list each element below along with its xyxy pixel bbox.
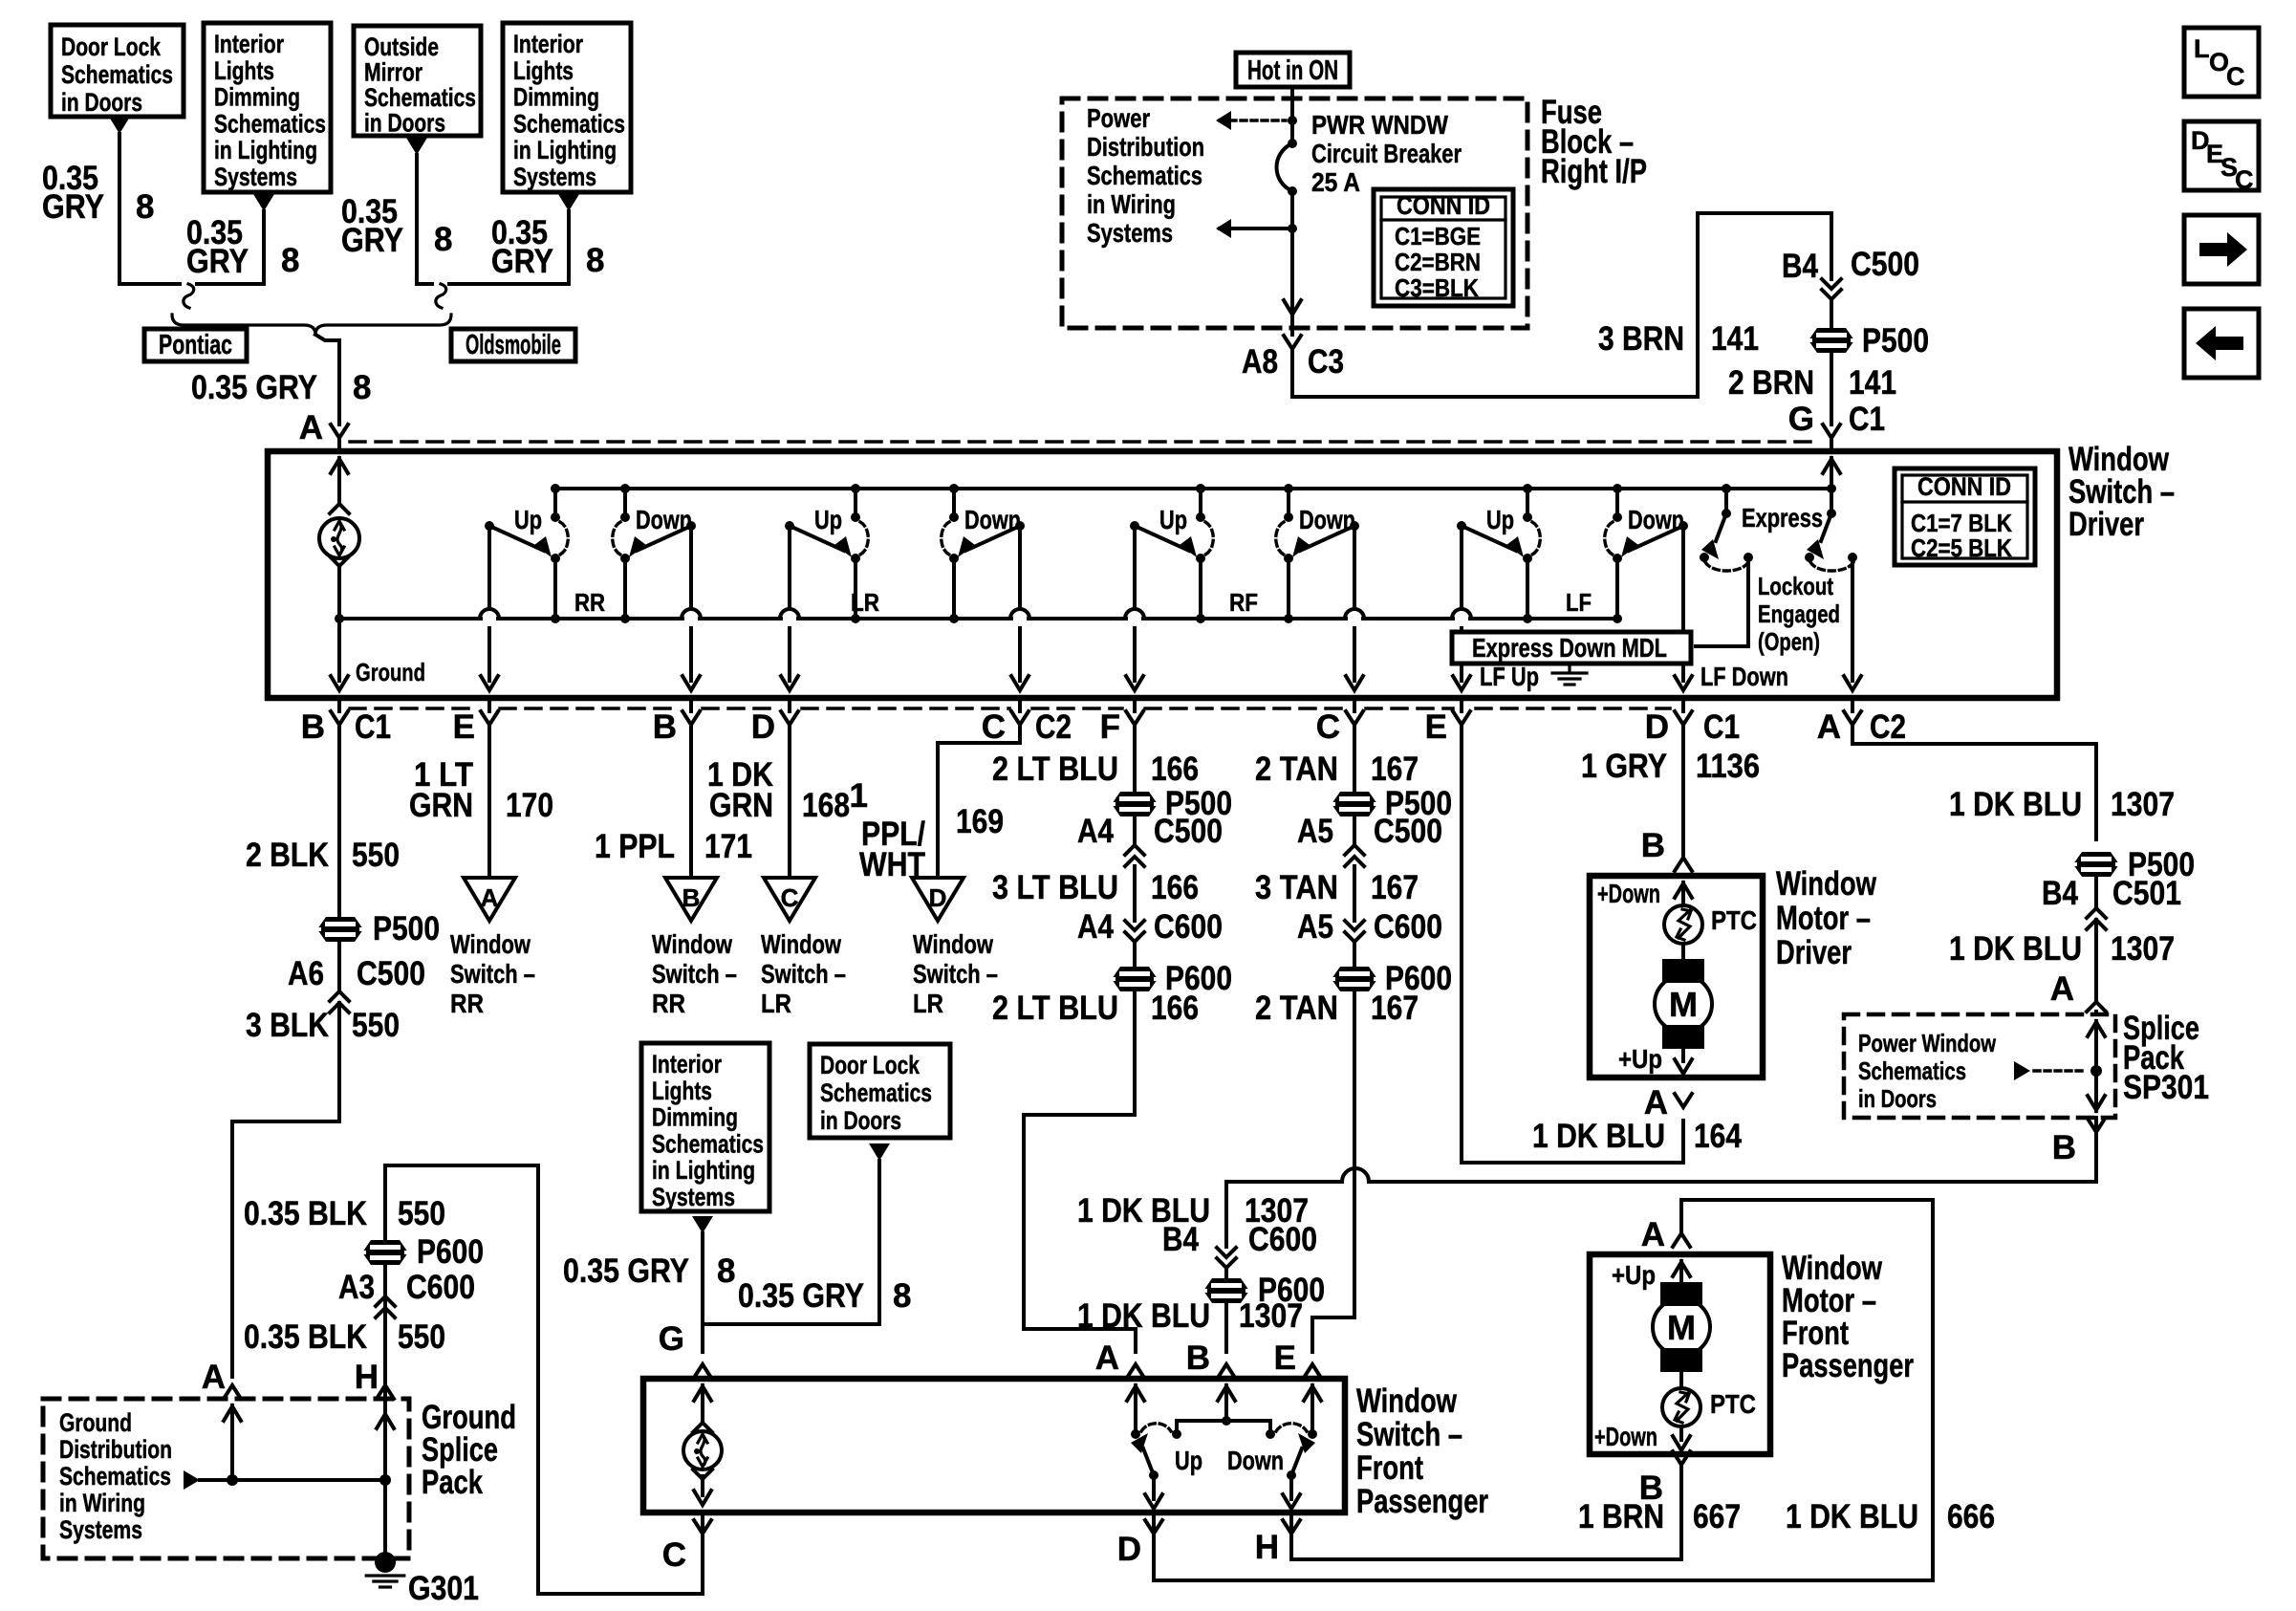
svg-text:3 LT BLU: 3 LT BLU <box>992 869 1118 906</box>
svg-text:C600: C600 <box>1248 1221 1317 1258</box>
solid arrow to power distribution (bottom) <box>1216 219 1231 238</box>
triangle A: window switch RR <box>464 878 515 921</box>
svg-text:in Doors: in Doors <box>364 109 445 138</box>
svg-text:167: 167 <box>1371 751 1419 788</box>
svg-text:PWR WNDW: PWR WNDW <box>1311 110 1448 140</box>
svg-text:1 BRN: 1 BRN <box>1578 1498 1664 1535</box>
connector A6 / C500 <box>337 942 341 990</box>
svg-text:164: 164 <box>1694 1118 1742 1155</box>
grommet P500 (right) <box>2073 852 2119 877</box>
svg-text:B: B <box>682 883 701 912</box>
svg-text:A: A <box>2050 970 2074 1008</box>
wire: driver switch D/C1 to motor B (1 GRY 1136) <box>1681 725 1685 858</box>
arrow from Interior Lights (bottom) <box>692 1216 713 1233</box>
svg-text:2 BRN: 2 BRN <box>1728 364 1814 402</box>
svg-text:Window: Window <box>1356 1382 1458 1420</box>
motor feed entry (inside) <box>1675 883 1692 898</box>
svg-text:Down: Down <box>1628 505 1684 534</box>
svg-text:C2=5 BLK: C2=5 BLK <box>1911 533 2012 562</box>
svg-text:in Wiring: in Wiring <box>1087 189 1176 219</box>
svg-text:C600: C600 <box>1374 908 1442 946</box>
svg-text:+Down: +Down <box>1597 879 1660 908</box>
svg-text:Power: Power <box>1087 103 1150 133</box>
svg-text:0.35 BLK: 0.35 BLK <box>244 1318 367 1356</box>
svg-text:Systems: Systems <box>652 1183 735 1211</box>
wire to front passenger B <box>1224 1303 1228 1352</box>
box: Window Switch - Front Passenger <box>643 1379 1345 1513</box>
svg-text:8: 8 <box>586 242 604 279</box>
reference box: Door Lock Schematics (bottom) <box>810 1044 950 1138</box>
svg-text:A3: A3 <box>338 1269 375 1306</box>
splice squiggle right pair <box>436 284 446 308</box>
PTC (passenger motor) <box>1662 1388 1700 1426</box>
wire: C column 2 TAN 167 <box>1353 725 1356 792</box>
svg-text:Schematics: Schematics <box>364 83 476 112</box>
circuit breaker PWR WNDW 25A <box>1288 139 1297 148</box>
svg-text:C1: C1 <box>355 708 391 746</box>
svg-text:Systems: Systems <box>513 163 596 191</box>
svg-text:in Doors: in Doors <box>820 1106 901 1135</box>
svg-text:C3: C3 <box>1308 343 1344 381</box>
switch Express <box>1722 484 1731 493</box>
svg-text:Dimming: Dimming <box>513 83 599 112</box>
connector A (driver motor) <box>1675 1094 1692 1107</box>
connector A3 / C600 <box>376 1296 395 1306</box>
svg-text:Lockout: Lockout <box>1758 572 1833 600</box>
svg-text:166: 166 <box>1151 869 1199 906</box>
svg-text:C501: C501 <box>2112 875 2181 912</box>
svg-text:167: 167 <box>1371 869 1419 906</box>
switch LR Down <box>949 484 959 493</box>
connector C / C2 (to window switch LR) <box>1018 698 1022 711</box>
dashed connector line C1 (top) <box>350 440 1821 444</box>
wire: 0.35 GRY 8 joins G wire <box>703 1161 879 1324</box>
svg-text:C600: C600 <box>1154 908 1223 946</box>
svg-text:C: C <box>2226 62 2245 91</box>
svg-text:Interior: Interior <box>652 1050 722 1078</box>
svg-text:Up: Up <box>514 505 542 534</box>
svg-text:M: M <box>1667 1308 1696 1347</box>
triangle B: window switch RR <box>665 878 717 921</box>
wire: D to window switch LR triangle C <box>788 725 791 878</box>
svg-text:D: D <box>929 883 947 912</box>
svg-text:2 LT BLU: 2 LT BLU <box>992 990 1118 1027</box>
arrow from Door Lock box <box>109 117 130 134</box>
motor entry +Up (inside) <box>1673 1262 1690 1276</box>
wire: ground exit <box>337 619 341 681</box>
svg-text:SP301: SP301 <box>2123 1069 2209 1106</box>
wire: LR Up pivot to connector D <box>788 526 791 609</box>
connector B (splice pack SP301) <box>2094 1118 2098 1132</box>
svg-text:Distribution: Distribution <box>1087 132 1204 162</box>
passenger switch B feed bar <box>1218 1386 1235 1401</box>
splice squiggle left pair <box>184 284 194 308</box>
svg-text:25 A: 25 A <box>1311 167 1360 197</box>
svg-text:GRY: GRY <box>341 222 403 259</box>
svg-text:Schematics: Schematics <box>820 1078 932 1107</box>
svg-text:Mirror: Mirror <box>364 58 422 87</box>
svg-text:C1: C1 <box>1849 401 1885 438</box>
grommet P600 on C column <box>1332 967 1377 991</box>
link arc A-bar <box>1141 1424 1171 1431</box>
reference box: Interior Lights Dimming Schematics (left) <box>204 23 331 192</box>
svg-text:8: 8 <box>281 242 299 279</box>
wire: LR Down pivot to connector C <box>1018 526 1022 609</box>
svg-text:169: 169 <box>956 803 1004 840</box>
svg-text:Systems: Systems <box>1087 218 1173 248</box>
svg-text:Window: Window <box>913 929 993 959</box>
svg-text:141: 141 <box>1711 320 1759 358</box>
connector D (to window switch LR) <box>788 698 791 711</box>
svg-text:B: B <box>1186 1339 1210 1377</box>
box: Window Motor - Driver <box>1590 876 1763 1078</box>
passenger switch right arm (to H) <box>1287 1470 1296 1480</box>
arrow from Door Lock (bottom) <box>869 1143 890 1161</box>
grommet P500 (top right) <box>1809 328 1854 353</box>
wire: RF Up pivot to connector F <box>1133 526 1137 609</box>
grommet P600 (B column) <box>1203 1278 1249 1303</box>
connector E (to driver motor A) <box>1460 698 1463 711</box>
svg-text:Schematics: Schematics <box>59 1462 171 1491</box>
connector B4 / C501 <box>2094 877 2098 906</box>
reference box: Door Lock Schematics in Doors <box>51 25 184 117</box>
connector A (ground splice pack) <box>224 1385 241 1399</box>
svg-text:C2: C2 <box>1035 708 1072 746</box>
svg-text:RR: RR <box>652 989 685 1018</box>
switch LF Down <box>1613 484 1622 493</box>
dashed box: Power Window Schematics in Doors (SP301) <box>1844 1014 2115 1118</box>
wire: breaker to A8 <box>1290 191 1294 316</box>
svg-text:L: L <box>2194 34 2210 63</box>
svg-text:Switch –: Switch – <box>450 959 535 989</box>
svg-text:C3=BLK: C3=BLK <box>1395 273 1479 302</box>
svg-text:+Up: +Up <box>1618 1044 1662 1074</box>
wire: lockout to connector A C2 <box>1851 557 1854 681</box>
svg-text:A6: A6 <box>288 955 324 992</box>
reference box: Interior Lights Dimming Schematics (right) <box>503 23 631 192</box>
svg-text:C: C <box>1316 708 1340 746</box>
box: Hot in ON <box>1236 53 1350 87</box>
switch Lockout (C2 feed) <box>1827 484 1836 493</box>
svg-text:in Lighting: in Lighting <box>652 1156 755 1185</box>
connector C (front passenger switch, below) <box>701 1515 704 1534</box>
svg-text:8: 8 <box>136 188 154 226</box>
svg-text:GRY: GRY <box>491 243 553 280</box>
svg-text:in Lighting: in Lighting <box>513 136 617 164</box>
arrow from Outside Mirror box <box>406 138 427 155</box>
svg-text:B4: B4 <box>2042 875 2078 912</box>
connector H (front passenger switch, below) <box>1289 1515 1293 1534</box>
PTC (driver motor) <box>1664 905 1702 944</box>
arrow from Interior Lights box (right) <box>558 194 579 211</box>
svg-text:Front: Front <box>1356 1449 1423 1487</box>
svg-text:Up: Up <box>1175 1446 1202 1475</box>
box: CONN ID (driver switch) <box>1895 468 2035 565</box>
svg-text:A4: A4 <box>1077 908 1114 946</box>
svg-text:G301: G301 <box>408 1570 479 1607</box>
svg-text:(Open): (Open) <box>1758 627 1820 656</box>
arrow link inside SP301 <box>2014 1061 2030 1080</box>
svg-text:P600: P600 <box>417 1233 484 1271</box>
connector B (driver motor) <box>1675 858 1692 871</box>
svg-text:Express Down MDL: Express Down MDL <box>1472 633 1667 663</box>
connector A / C2 (to splice pack) <box>1851 698 1854 711</box>
wire: LF Up pivot to Express Down MDL <box>1460 526 1463 609</box>
svg-text:1 DK BLU: 1 DK BLU <box>1077 1297 1210 1335</box>
wire: 0.35 GRY 8 down to connector A <box>315 335 339 340</box>
box: CONN ID (fuse block) <box>1374 189 1513 306</box>
connector A4 / C500 <box>1133 816 1137 845</box>
svg-text:Schematics: Schematics <box>1087 161 1202 190</box>
wire: 0.35 GRY from Interior Lights box (left) <box>197 211 264 284</box>
svg-text:166: 166 <box>1151 990 1199 1027</box>
svg-text:Motor –: Motor – <box>1776 900 1871 937</box>
svg-text:A: A <box>1644 1084 1668 1121</box>
svg-text:Lights: Lights <box>214 56 274 85</box>
merge brace Pontiac/Oldsmobile <box>172 315 451 335</box>
svg-text:E: E <box>1425 708 1447 746</box>
nav box right-arrow <box>2184 215 2259 284</box>
svg-text:Up: Up <box>1486 505 1514 534</box>
svg-text:C1: C1 <box>1703 708 1740 746</box>
svg-text:Window: Window <box>652 929 732 959</box>
svg-text:Window: Window <box>1776 865 1877 903</box>
svg-text:LR: LR <box>851 588 879 617</box>
connector H (ground splice pack) <box>377 1385 394 1399</box>
svg-text:3 TAN: 3 TAN <box>1255 869 1338 906</box>
svg-text:Window: Window <box>450 929 531 959</box>
connector G (front passenger switch) <box>694 1364 711 1378</box>
svg-text:Lights: Lights <box>513 56 574 85</box>
wire: A/C2 to splice pack SP301 (1 DK BLU 1307) <box>1852 723 2096 839</box>
svg-text:RR: RR <box>574 588 605 617</box>
connector B / C1 (driver ground) <box>337 698 341 711</box>
svg-text:P500: P500 <box>373 910 440 947</box>
svg-text:2 BLK: 2 BLK <box>246 837 329 874</box>
svg-text:B4: B4 <box>1782 248 1818 285</box>
svg-text:0.35 GRY: 0.35 GRY <box>191 369 317 406</box>
svg-text:Schematics: Schematics <box>652 1129 764 1158</box>
svg-text:Ground: Ground <box>356 658 425 686</box>
svg-text:Up: Up <box>814 505 842 534</box>
svg-text:Up: Up <box>1159 505 1187 534</box>
svg-text:C2: C2 <box>1870 708 1906 746</box>
svg-text:A: A <box>1817 708 1841 746</box>
svg-text:Systems: Systems <box>214 163 297 191</box>
svg-text:1 GRY: 1 GRY <box>1581 748 1667 785</box>
grommet P500 on C column <box>1332 792 1377 816</box>
box: Window Switch - Driver <box>268 451 2057 698</box>
svg-text:Switch –: Switch – <box>1356 1416 1462 1453</box>
svg-text:B: B <box>653 708 677 746</box>
wire: LF Down output <box>1681 664 1685 681</box>
svg-text:PTC: PTC <box>1711 905 1757 935</box>
svg-text:GRY: GRY <box>186 243 249 280</box>
svg-text:Lights: Lights <box>652 1077 712 1105</box>
svg-text:Switch –: Switch – <box>913 959 998 989</box>
svg-text:Distribution: Distribution <box>59 1435 172 1464</box>
svg-text:3 BRN: 3 BRN <box>1598 320 1684 358</box>
svg-text:+Down: +Down <box>1594 1422 1657 1451</box>
svg-text:E: E <box>453 708 475 746</box>
wire: RF Down pivot to connector C <box>1353 526 1356 609</box>
switch RF Up <box>1196 484 1205 493</box>
svg-text:Express: Express <box>1742 503 1823 533</box>
wire: breaker to ground bus <box>337 566 341 619</box>
svg-text:Passenger: Passenger <box>1356 1483 1488 1520</box>
G wire inside passenger switch <box>694 1386 711 1401</box>
svg-text:Door Lock: Door Lock <box>820 1051 921 1079</box>
box: Pontiac <box>144 329 247 361</box>
wire motor to +Up exit <box>1681 1049 1685 1061</box>
triangle C: window switch LR <box>764 878 815 921</box>
svg-text:LF Up: LF Up <box>1480 662 1539 691</box>
svg-text:G: G <box>659 1320 684 1358</box>
svg-text:1136: 1136 <box>1696 748 1760 785</box>
switch RR Up <box>551 484 560 493</box>
lockout link (C2 side) <box>1810 562 1853 571</box>
svg-text:D: D <box>751 708 775 746</box>
passenger switch A contact <box>1127 1386 1144 1401</box>
reference box: Interior Lights Dimming (bottom) <box>641 1043 769 1211</box>
svg-text:PTC: PTC <box>1710 1389 1756 1419</box>
wire: 0.35 GRY from Interior Lights box (right) <box>449 211 569 284</box>
motor M (passenger) <box>1660 1282 1702 1306</box>
svg-text:166: 166 <box>1151 751 1199 788</box>
svg-text:Switch –: Switch – <box>652 959 737 989</box>
bus junction at left wire <box>335 614 344 623</box>
svg-text:Circuit Breaker: Circuit Breaker <box>1311 139 1462 168</box>
svg-text:2 LT BLU: 2 LT BLU <box>992 751 1118 788</box>
svg-text:GRY: GRY <box>42 188 104 226</box>
svg-text:+Up: +Up <box>1612 1260 1656 1290</box>
svg-text:Pack: Pack <box>422 1464 483 1501</box>
dashed connector line (bottom of driver switch) <box>350 707 478 710</box>
nav box DESC <box>2184 121 2259 190</box>
reference box: Outside Mirror Schematics in Doors <box>354 26 481 136</box>
svg-text:Down: Down <box>636 505 692 534</box>
wire: G/C1 feed entry (inside box) <box>1823 459 1840 473</box>
arrow: ground distribution link <box>184 1470 200 1490</box>
svg-text:1 DK BLU: 1 DK BLU <box>1949 786 2082 823</box>
svg-text:C2=BRN: C2=BRN <box>1395 248 1481 276</box>
svg-text:in Wiring: in Wiring <box>59 1489 145 1517</box>
svg-text:C500: C500 <box>1154 813 1223 850</box>
nav box LOC <box>2184 28 2259 97</box>
wire: B to window switch RR triangle B <box>689 725 693 878</box>
wire: H column 0.35 BLK 550 up to P600 <box>385 1165 703 1594</box>
svg-text:141: 141 <box>1849 364 1896 402</box>
svg-text:A: A <box>1095 1339 1119 1377</box>
svg-text:Driver: Driver <box>2069 506 2144 543</box>
wire: driver B/C1 ground 2 BLK 550 <box>337 725 341 917</box>
svg-text:CONN ID: CONN ID <box>1917 472 2011 501</box>
svg-text:D: D <box>1645 708 1669 746</box>
svg-text:Driver: Driver <box>1776 934 1852 971</box>
wire: RR Down pivot to connector B <box>689 526 693 609</box>
svg-text:Dimming: Dimming <box>652 1103 738 1132</box>
svg-text:667: 667 <box>1693 1498 1741 1535</box>
bridge over C column <box>1342 1168 1369 1182</box>
svg-text:550: 550 <box>398 1318 445 1356</box>
svg-text:G: G <box>1788 401 1814 438</box>
wire: 2 BRN 141 to G/C1 <box>1830 353 1833 425</box>
svg-text:666: 666 <box>1947 1498 1995 1535</box>
connector D / C1 (to driver motor B) <box>1681 698 1685 711</box>
ground symbol below MDL <box>1568 665 1570 672</box>
svg-text:168: 168 <box>802 787 850 824</box>
svg-text:in Doors: in Doors <box>1858 1084 1937 1113</box>
wire: 2 BRN 141 from A8/C3 to fuse block loop <box>1292 213 1831 397</box>
grommet P600 on ground 550 <box>362 1240 408 1265</box>
svg-text:3 BLK: 3 BLK <box>246 1007 329 1044</box>
svg-text:1307: 1307 <box>1239 1297 1303 1335</box>
svg-text:C: C <box>781 883 799 912</box>
wire through SP301 <box>2088 1022 2105 1036</box>
svg-text:Oldsmobile: Oldsmobile <box>466 330 561 360</box>
svg-text:A4: A4 <box>1077 813 1114 850</box>
dashed box: Fuse Block <box>1062 98 1527 328</box>
link arc bar-E <box>1276 1424 1307 1431</box>
svg-text:550: 550 <box>352 837 400 874</box>
svg-text:1307: 1307 <box>2111 930 2175 968</box>
circuit breaker (driver switch) <box>319 518 359 558</box>
wire: 0.35 GRY from Outside Mirror box <box>417 155 432 284</box>
svg-text:LR: LR <box>761 989 791 1018</box>
svg-text:E: E <box>1274 1339 1296 1377</box>
svg-text:B4: B4 <box>1162 1221 1199 1258</box>
wire: 0.35 GRY from Door Lock box <box>119 134 180 284</box>
svg-text:A5: A5 <box>1297 908 1333 946</box>
svg-text:2 TAN: 2 TAN <box>1255 990 1338 1027</box>
svg-text:0.35 BLK: 0.35 BLK <box>244 1195 367 1232</box>
svg-text:C: C <box>662 1536 686 1574</box>
svg-text:C: C <box>982 708 1006 746</box>
svg-text:1307: 1307 <box>2111 786 2175 823</box>
svg-text:C1=BGE: C1=BGE <box>1395 222 1481 250</box>
svg-text:Passenger: Passenger <box>1782 1347 1914 1384</box>
svg-text:in Lighting: in Lighting <box>214 136 317 164</box>
svg-text:8: 8 <box>353 369 371 406</box>
connector D (front passenger switch, below) <box>1152 1515 1156 1534</box>
svg-text:Hot in ON: Hot in ON <box>1247 55 1338 86</box>
svg-text:Down: Down <box>1227 1446 1284 1475</box>
wire: C column to front passenger E <box>1312 991 1354 1352</box>
connector A5 / C500 <box>1353 816 1356 845</box>
connector E (to window switch RR) <box>487 698 491 711</box>
svg-text:C500: C500 <box>1374 813 1442 850</box>
wire PTC to +Down exit <box>1679 1426 1683 1440</box>
svg-text:Right I/P: Right I/P <box>1541 153 1647 190</box>
svg-text:C500: C500 <box>1851 246 1919 283</box>
wire: motor B to H (1 BRN 667) <box>1291 1465 1681 1559</box>
top feed bus <box>556 487 1831 490</box>
svg-text:Window: Window <box>761 929 841 959</box>
svg-text:550: 550 <box>352 1007 400 1044</box>
svg-text:Systems: Systems <box>59 1515 142 1544</box>
arrow from Interior Lights box (left) <box>253 194 274 211</box>
svg-text:550: 550 <box>398 1195 445 1232</box>
svg-text:Power Window: Power Window <box>1858 1029 1997 1057</box>
svg-text:in Doors: in Doors <box>61 88 142 117</box>
wire exits SP301 <box>2088 1096 2105 1110</box>
svg-text:8: 8 <box>434 221 452 258</box>
svg-text:0.35 GRY: 0.35 GRY <box>738 1277 864 1315</box>
wire: SP301 B to front passenger B column <box>1370 1132 2096 1182</box>
svg-text:8: 8 <box>893 1277 911 1315</box>
connector A (driver switch C1) <box>331 425 348 438</box>
wire: motor A loop (1 DK BLU 666) <box>1154 1200 1933 1580</box>
